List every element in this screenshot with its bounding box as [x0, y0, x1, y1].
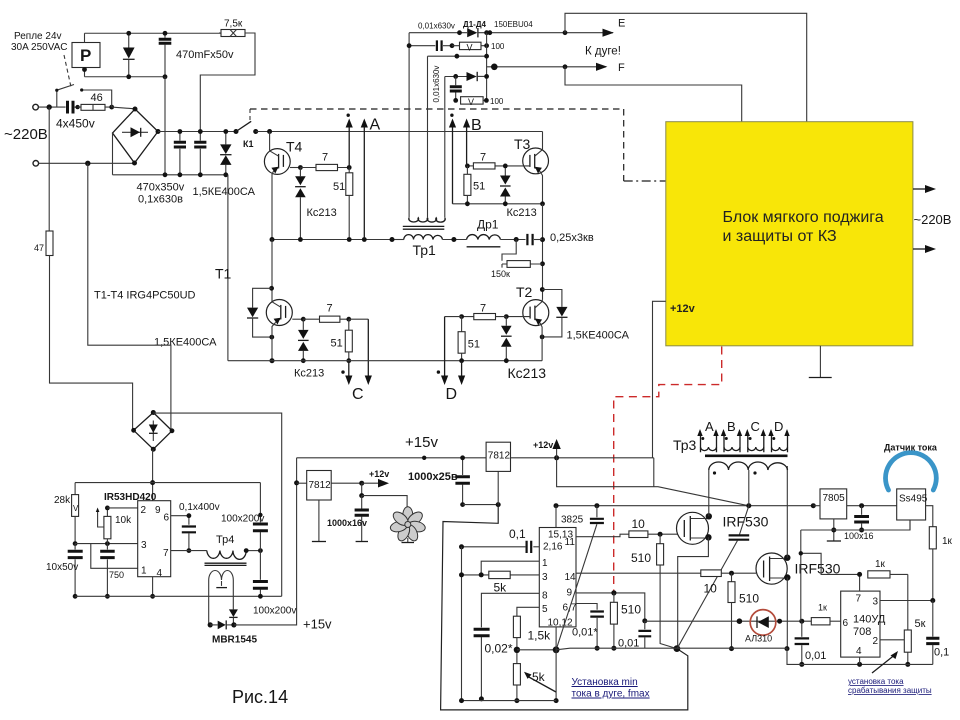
wire pin2 to pot wiper — [880, 639, 904, 641]
transformer Tp3 secondary B — [724, 436, 740, 453]
varistor V snubber1 — [460, 42, 482, 49]
capacitor 0,25x3kv — [527, 234, 532, 245]
capacitor 0,02* — [474, 629, 490, 636]
DC plus bus K1 to T3 — [256, 131, 543, 133]
capacitor 0,01* flying — [596, 506, 598, 518]
wire pin4 to bottom bus — [152, 577, 154, 597]
winding arrow B gate side — [466, 127, 468, 166]
TVS 1,5KE400CA across bus — [225, 132, 227, 175]
svg-text:150к: 150к — [491, 269, 510, 279]
wire IRF1 drain to Tp3 — [708, 470, 710, 516]
wire Dr1 to cap — [500, 239, 525, 241]
wire 7,5k return path — [200, 33, 255, 131]
node diode bottom — [126, 74, 131, 79]
snubber1 cap 0,01x630v — [409, 45, 435, 47]
resistor 510 pin9 — [613, 593, 615, 602]
transformer Tp1 secondary center tap — [427, 56, 429, 218]
resistor 1,5k — [513, 616, 520, 637]
svg-text:1: 1 — [141, 566, 147, 577]
svg-text:750: 750 — [109, 570, 124, 580]
wire pin1 — [481, 561, 539, 575]
svg-text:срабатывания защиты: срабатывания защиты — [848, 686, 932, 695]
wire pin3 — [880, 600, 933, 602]
wire relay top stub — [84, 33, 86, 42]
svg-text:Кс213: Кс213 — [507, 207, 537, 219]
annotation arrow to pot — [527, 676, 556, 692]
svg-text:Кс213: Кс213 — [307, 207, 337, 219]
opamp 140UD708 — [841, 591, 880, 657]
zener Kc213 T3 — [504, 166, 506, 204]
wire 3825 top supply — [555, 506, 557, 528]
zener Kc213 T1 — [302, 319, 304, 361]
resistor 51 T2 — [458, 332, 465, 354]
svg-text:9: 9 — [155, 505, 161, 516]
capacitor 0,01 right of led — [801, 621, 803, 637]
arrow F output — [596, 63, 607, 71]
svg-text:Кс213: Кс213 — [294, 368, 324, 380]
transformer Tp3 secondary D — [772, 436, 788, 453]
svg-text:+12v: +12v — [533, 440, 553, 450]
svg-text:28k: 28k — [54, 495, 71, 506]
transistor T4 — [264, 149, 290, 175]
svg-text:тока в дуге, fmax: тока в дуге, fmax — [572, 689, 650, 700]
capacitor 750 — [100, 551, 115, 557]
wire relay top rail — [85, 32, 222, 34]
wire input lower to bridge bottom vertex — [39, 162, 135, 164]
terminal input upper — [33, 104, 39, 110]
wire 7,5k left — [219, 32, 221, 34]
svg-text:1,5КЕ400СА: 1,5КЕ400СА — [193, 186, 256, 198]
resistor 47 — [46, 231, 53, 256]
resistor 7 T4 — [316, 164, 338, 170]
transformer Tp1 secondary right winding — [427, 218, 445, 222]
wire T1 gate — [292, 318, 303, 320]
node AC2 tap — [85, 161, 90, 166]
svg-text:10k: 10k — [115, 515, 132, 526]
red dashed control link — [614, 347, 722, 593]
svg-text:0,1x400v: 0,1x400v — [179, 502, 220, 513]
node 46 right — [109, 105, 114, 110]
svg-text:V: V — [468, 97, 474, 107]
transformer Tp3 secondary C — [748, 436, 764, 453]
wire T4 collector riser — [269, 132, 271, 151]
annotation arrow right — [872, 656, 894, 674]
node cap top — [163, 31, 168, 36]
svg-text:Т2: Т2 — [516, 284, 533, 300]
wire E route to soft start — [565, 13, 807, 121]
DC plus bus from bridge to K1 — [158, 131, 236, 133]
svg-text:510: 510 — [621, 603, 641, 617]
svg-text:~220В: ~220В — [914, 212, 952, 227]
svg-text:100: 100 — [490, 97, 504, 106]
node T4 gate res right — [347, 165, 352, 170]
svg-text:К дуге!: К дуге! — [585, 46, 621, 58]
svg-text:7,5к: 7,5к — [224, 19, 243, 30]
svg-text:7812: 7812 — [309, 480, 332, 491]
svg-text:V: V — [467, 42, 473, 52]
svg-text:1,5k: 1,5k — [528, 629, 552, 643]
svg-text:0,1: 0,1 — [509, 527, 526, 541]
svg-text:3: 3 — [542, 572, 548, 583]
arrow E output — [603, 29, 614, 37]
wire pins 10,12 down — [555, 627, 557, 701]
LED AL310 — [750, 610, 776, 636]
svg-text:470x350v: 470x350v — [137, 182, 185, 194]
svg-text:7812: 7812 — [488, 451, 511, 462]
wire +12v into block — [653, 301, 666, 458]
capacitor 10x50v — [68, 551, 83, 557]
svg-text:Репле 24v: Репле 24v — [14, 31, 62, 42]
svg-text:С: С — [352, 386, 364, 403]
resistor 5k pin3 — [510, 574, 539, 576]
wire F output — [487, 66, 606, 68]
bottom bus left section — [75, 595, 282, 597]
svg-text:7: 7 — [327, 303, 333, 315]
wire pin5 to 1,5k — [517, 607, 539, 616]
svg-text:51: 51 — [468, 339, 480, 351]
supply rail left section — [75, 482, 260, 484]
wire Ss495 out to 1k — [926, 506, 933, 527]
svg-text:7: 7 — [856, 594, 862, 605]
transformer Tp4 secondary — [209, 571, 234, 625]
wire pin 6,7 to cap — [576, 604, 597, 610]
wire T1 collector riser — [271, 240, 273, 302]
arrow block output lower — [913, 248, 926, 250]
node T1 protection diode top — [269, 286, 274, 291]
svg-text:0,1x630в: 0,1x630в — [138, 194, 183, 206]
svg-text:0,25x3кв: 0,25x3кв — [550, 232, 594, 244]
arrow block output upper — [913, 188, 926, 190]
wire +12v distribution to Tp3 — [557, 458, 749, 506]
svg-text:P: P — [80, 46, 91, 65]
node T4 collector tap — [267, 129, 272, 134]
svg-text:АЛ310: АЛ310 — [745, 634, 772, 644]
wire B2 to IC supply rail — [152, 449, 155, 501]
svg-text:В: В — [471, 117, 482, 134]
svg-text:2,16: 2,16 — [543, 542, 563, 553]
svg-text:Датчик тока: Датчик тока — [884, 443, 938, 453]
wire Tp3 center tap — [748, 470, 750, 506]
wire relay bottom stub — [84, 68, 86, 77]
svg-text:5: 5 — [542, 604, 548, 615]
capacitor 100x200v lower — [259, 551, 261, 580]
wire T4 emitter rail — [272, 239, 392, 241]
svg-text:Е: Е — [618, 18, 625, 30]
svg-text:0,1: 0,1 — [934, 647, 949, 659]
svg-text:3825: 3825 — [561, 515, 584, 526]
svg-text:Тр1: Тр1 — [413, 242, 437, 258]
capacitor flying decoupling — [740, 506, 749, 535]
resistor 46 — [81, 104, 105, 110]
protection diode 1,5KE400CA T1 — [253, 288, 272, 337]
wire T3 leg down — [542, 204, 544, 300]
resistor 51 T4 — [346, 173, 353, 196]
resistor 51 T1 — [345, 330, 352, 352]
wire T2 gate — [506, 316, 530, 318]
winding arrow C gate side — [349, 318, 369, 320]
pot 10k — [104, 516, 111, 538]
svg-text:51: 51 — [333, 181, 345, 193]
svg-text:D: D — [774, 419, 783, 434]
wire pin7 up — [859, 574, 861, 591]
wire led row — [645, 620, 812, 622]
wire B2 DC out right path — [153, 413, 281, 597]
svg-text:100x200v: 100x200v — [221, 514, 264, 525]
resistor 150k loop — [502, 240, 543, 268]
IC 3825 — [539, 528, 576, 627]
zener Kc213 T4 — [299, 168, 301, 240]
svg-text:9: 9 — [567, 588, 573, 599]
bottom wire right section — [787, 648, 933, 664]
node T4 gate — [298, 165, 303, 170]
svg-text:10: 10 — [704, 582, 718, 596]
gate return line — [556, 648, 787, 650]
svg-text:0,01x630v: 0,01x630v — [418, 22, 455, 31]
svg-text:5k: 5k — [494, 581, 508, 595]
relay coil P box — [72, 43, 100, 68]
svg-text:1,5КЕ400СА: 1,5КЕ400СА — [154, 337, 217, 349]
svg-text:30A 250VAC: 30A 250VAC — [11, 42, 68, 53]
svg-text:4: 4 — [157, 568, 163, 579]
svg-text:1000x25в: 1000x25в — [408, 471, 458, 483]
svg-text:Др1: Др1 — [477, 218, 499, 232]
svg-text:установка тока: установка тока — [848, 677, 904, 686]
wire IRF1 source path — [678, 537, 709, 648]
arrow +12v up — [556, 448, 558, 458]
protection diode 1,5KE400CA T2 — [542, 290, 562, 337]
resistor 1k led side — [811, 618, 830, 625]
transformer Tp1 secondary left winding — [408, 33, 410, 218]
svg-text:7: 7 — [163, 548, 169, 559]
bottom emitter bus — [228, 360, 542, 362]
svg-text:51: 51 — [331, 338, 343, 350]
svg-text:46: 46 — [91, 92, 103, 104]
svg-text:+12v: +12v — [670, 303, 696, 315]
wire 47 down and across to aux bridge — [50, 256, 133, 431]
wire gnd link 7812 second — [463, 504, 499, 506]
svg-text:+12v: +12v — [369, 469, 389, 479]
svg-text:D: D — [446, 386, 458, 403]
capacitor 0,1 at pin 2,16 — [533, 546, 539, 548]
svg-text:150EBU04: 150EBU04 — [494, 20, 533, 29]
svg-text:1000x16v: 1000x16v — [327, 518, 367, 528]
bypass switch across cap and 46 — [57, 85, 112, 108]
rail +15v — [297, 457, 487, 459]
DC minus bus — [113, 174, 228, 176]
transistor IRF530 second — [756, 553, 787, 584]
capacitor 0,1x400v — [182, 527, 196, 533]
svg-text:0,02*: 0,02* — [485, 642, 513, 656]
winding arrow A emitter side — [363, 127, 365, 240]
svg-text:47: 47 — [34, 243, 44, 253]
wire down to pot 5k — [907, 574, 909, 630]
ground 7805 — [833, 519, 835, 541]
svg-text:Т1: Т1 — [215, 266, 232, 282]
dash-dot into yellow block — [624, 180, 666, 182]
resistor 10 first — [629, 531, 648, 538]
svg-text:3: 3 — [873, 597, 879, 608]
resistor 1k top — [868, 571, 890, 578]
wire AC2 to aux bridge — [88, 163, 171, 431]
diode D1 150EBU04 — [467, 28, 477, 37]
svg-text:Т4: Т4 — [286, 139, 303, 155]
svg-text:1,5КЕ400СА: 1,5КЕ400СА — [567, 330, 630, 342]
capacitor 470mFx50v — [164, 33, 166, 77]
wire pin11 to gate resistor — [576, 534, 629, 537]
wire DC minus down to H-bridge — [227, 175, 229, 361]
zener Kc213 T2 — [505, 317, 507, 361]
svg-text:8: 8 — [542, 591, 548, 602]
pot 5k right — [904, 630, 911, 652]
svg-text:T1-T4 IRG4PC50UD: T1-T4 IRG4PC50UD — [94, 290, 196, 302]
svg-text:100: 100 — [491, 42, 505, 51]
svg-text:MBR1545: MBR1545 — [212, 635, 257, 646]
transistor T2 — [523, 300, 549, 326]
winding arrow B emitter side — [452, 127, 454, 204]
svg-text:К1: К1 — [243, 139, 254, 149]
wire to pin3 and pin1 — [75, 544, 138, 569]
winding arrow D emitter side — [461, 361, 463, 376]
diode MBR1545 vertical — [229, 609, 238, 617]
node cap right — [75, 105, 79, 109]
svg-text:1к: 1к — [818, 603, 827, 613]
wire pin8 to cap 0,02 — [481, 593, 539, 627]
svg-text:2: 2 — [873, 636, 879, 647]
resistor 10 second — [701, 570, 722, 577]
snubber2 cap — [455, 76, 457, 100]
svg-text:708: 708 — [853, 626, 871, 638]
wire pwm supply line — [556, 505, 813, 507]
svg-text:2: 2 — [141, 505, 147, 516]
svg-text:51: 51 — [473, 181, 485, 193]
wire T4 emitter — [272, 172, 273, 240]
transformer Tp3 primary — [709, 462, 788, 470]
transformer Tp4 primary — [207, 551, 246, 560]
wire input upper — [38, 106, 65, 108]
svg-text:Д1-Д4: Д1-Д4 — [463, 20, 487, 29]
svg-text:Рис.14: Рис.14 — [232, 687, 288, 707]
capacitor 1000x25v — [462, 458, 464, 475]
wire +15v from MBR — [234, 458, 297, 625]
winding arrow D gate side — [445, 316, 462, 318]
blue current sensor arc — [886, 453, 937, 490]
svg-text:4x450v: 4x450v — [56, 117, 95, 131]
block soft start yellow — [666, 122, 913, 346]
wire pin9 — [576, 593, 645, 621]
svg-text:Ss495: Ss495 — [899, 494, 928, 505]
wire gnd node link — [517, 649, 556, 651]
svg-text:А: А — [370, 117, 381, 134]
svg-text:10,12: 10,12 — [548, 618, 573, 629]
resistor 28k — [74, 483, 76, 495]
resistor 7 T1 — [320, 316, 340, 322]
winding arrow A gate side — [348, 127, 350, 168]
bridge B2 internal diode — [152, 421, 154, 442]
transformer Tp1 primary — [392, 239, 404, 241]
wire T4 gate — [290, 167, 300, 169]
winding arrow C emitter side — [348, 361, 350, 376]
node relay coil bottom — [82, 67, 87, 72]
capacitor 1000x16v — [361, 483, 363, 495]
capacitor 100x16 — [861, 506, 863, 515]
svg-text:510: 510 — [631, 551, 651, 565]
transistor IRF530 first — [677, 512, 709, 544]
wire to fan — [362, 496, 407, 509]
node diode top — [126, 31, 131, 36]
svg-text:1: 1 — [542, 558, 548, 569]
dashed link K1 up — [249, 109, 251, 120]
svg-text:+15v: +15v — [405, 434, 438, 451]
dashed control line to soft start block — [250, 109, 624, 181]
pwm bottom bus — [462, 700, 557, 702]
wire gnd down to led node — [800, 530, 802, 621]
svg-text:11: 11 — [565, 537, 576, 548]
svg-text:С: С — [751, 419, 760, 434]
svg-text:1к: 1к — [875, 559, 886, 570]
svg-text:470mFx50v: 470mFx50v — [176, 49, 234, 61]
diode D2 — [445, 76, 467, 78]
wire pin7 — [171, 550, 207, 552]
svg-text:+15v: +15v — [303, 617, 332, 632]
wire T2 emitter — [540, 323, 542, 360]
transformer Tp4 core — [205, 563, 247, 565]
svg-text:Тр3: Тр3 — [673, 437, 697, 453]
resistor 7 T2 — [474, 314, 496, 320]
wire T3 gate — [495, 165, 530, 167]
contact K1 — [234, 129, 239, 134]
svg-text:4: 4 — [856, 646, 862, 657]
svg-text:F: F — [618, 62, 625, 74]
bridge B1 internal diode — [122, 131, 148, 133]
svg-text:0,01x630v: 0,01x630v — [432, 66, 441, 103]
pot 5k lower — [513, 664, 520, 685]
svg-text:Блок мягкого поджига: Блок мягкого поджига — [723, 209, 884, 226]
resistor 510 gate2 — [731, 573, 733, 582]
svg-text:7: 7 — [322, 152, 328, 164]
wire left pwm vertical — [461, 547, 463, 701]
aux bridge rectifier B2 — [134, 413, 172, 450]
sensor Ss495 — [897, 489, 926, 520]
capacitor 100x200v upper — [259, 483, 261, 523]
wire F route to soft start — [565, 67, 742, 122]
wire to bridge top vertex — [112, 107, 135, 109]
wire link to pin7 node — [801, 553, 860, 574]
wire pin14 to gate resistor 2 — [576, 572, 701, 574]
wire flying cap ground diagonal — [556, 524, 597, 650]
dashed mechanical link relay to bypass switch — [64, 55, 71, 87]
section frame pwm — [441, 505, 688, 710]
terminal input lower — [33, 161, 39, 167]
ground stub of block — [819, 346, 821, 377]
svg-text:10: 10 — [632, 517, 646, 531]
svg-text:6: 6 — [164, 513, 170, 524]
node input split — [47, 104, 52, 109]
svg-text:3: 3 — [141, 540, 147, 551]
transformer Tp1 core — [403, 226, 445, 229]
svg-text:А: А — [705, 419, 714, 434]
bridge rectifier B1 — [113, 109, 159, 163]
svg-text:Тр4: Тр4 — [216, 534, 234, 546]
wire IRF2 drain to Tp3 — [786, 466, 788, 558]
svg-text:и защиты от КЗ: и защиты от КЗ — [723, 228, 837, 245]
svg-text:0,01*: 0,01* — [572, 627, 598, 639]
fan — [389, 507, 426, 543]
svg-text:Установка min: Установка min — [572, 677, 638, 688]
svg-text:1к: 1к — [942, 536, 953, 547]
svg-text:Кс213: Кс213 — [508, 365, 547, 381]
capacitor 4x450v — [68, 101, 74, 114]
wire cap bottom down to DC minus bus — [164, 77, 166, 175]
